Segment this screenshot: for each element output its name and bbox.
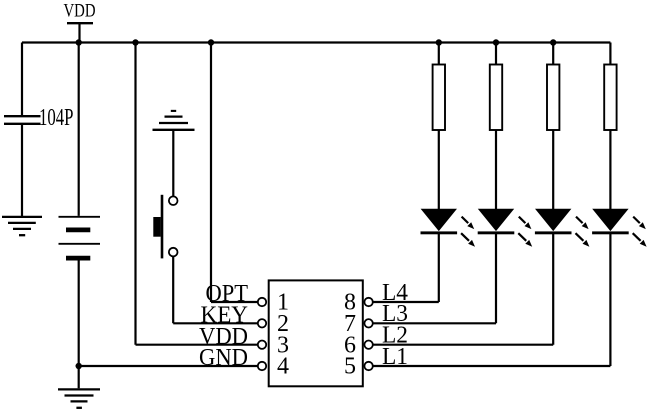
- pin 1 circle: [258, 298, 266, 306]
- junction VDD-pin branch: [132, 39, 138, 45]
- wire earth to switch: [172, 131, 174, 196]
- ground (main): [58, 389, 100, 407]
- pin 3 circle: [258, 341, 266, 349]
- battery BT1: [59, 217, 101, 258]
- resistor R4: [604, 65, 616, 131]
- LED D4: [592, 209, 647, 247]
- wire resistor R2 to LED D2: [495, 130, 497, 210]
- junction R2: [493, 39, 499, 45]
- LED D2: [478, 209, 533, 247]
- LED D1: [421, 209, 476, 247]
- wire rail to resistor R2: [495, 43, 497, 65]
- wire capacitor to ground: [21, 125, 23, 216]
- wire pin 5 to LED column L1: [373, 234, 611, 366]
- ground (capacitor): [2, 217, 42, 235]
- resistor R2: [490, 65, 502, 131]
- wire rail to capacitor C1: [21, 43, 23, 116]
- wire pin 8 to LED column L4: [373, 234, 439, 302]
- wire GND net to pin 4: [79, 365, 258, 367]
- power symbol VDD: [64, 0, 96, 42]
- pin 2 circle: [258, 319, 266, 327]
- wire rail to resistor R4: [609, 43, 611, 65]
- pin 6 circle: [364, 341, 372, 349]
- svg-text:GND: GND: [199, 345, 248, 371]
- pin 5 circle: [364, 362, 372, 370]
- wire resistor R1 to LED D1: [438, 130, 440, 210]
- junction OPT branch: [208, 39, 214, 45]
- wire ground node to ground symbol: [78, 366, 80, 388]
- svg-text:4: 4: [277, 354, 289, 380]
- wire pin 7 to LED column L3: [373, 234, 496, 323]
- junction ground node: [76, 363, 82, 369]
- svg-text:5: 5: [344, 354, 356, 380]
- wire battery to ground node: [78, 260, 80, 366]
- wire switch to pin 2 KEY: [173, 257, 258, 324]
- op IC U1 body: [269, 280, 363, 386]
- pin 8 circle: [364, 298, 372, 306]
- earth symbol (inverted, above switch): [153, 111, 195, 130]
- wire rail to battery BT1: [78, 43, 80, 216]
- wire pin 6 to LED column L2: [373, 234, 553, 345]
- svg-text:VDD: VDD: [64, 0, 96, 21]
- wire rail down OPT net to pin 1: [211, 43, 258, 303]
- capacitor C1: [4, 116, 41, 124]
- wire resistor R3 to LED D3: [552, 130, 554, 210]
- wire rail to resistor R3: [552, 43, 554, 65]
- wire rail down VDD net to pin 3: [136, 43, 258, 345]
- svg-text:104P: 104P: [39, 105, 74, 131]
- pin 7 circle: [364, 319, 372, 327]
- resistor R1: [433, 65, 445, 131]
- LED D3: [535, 209, 590, 247]
- pin 4 circle: [258, 362, 266, 370]
- resistor R3: [547, 65, 559, 131]
- junction R3: [550, 39, 556, 45]
- wire top rail VDD net: [22, 41, 610, 43]
- junction battery branch: [76, 39, 82, 45]
- junction R1: [436, 39, 442, 45]
- pushbutton S1: [153, 195, 177, 259]
- wire rail to resistor R1: [438, 43, 440, 65]
- wire resistor R4 to LED D4: [609, 130, 611, 210]
